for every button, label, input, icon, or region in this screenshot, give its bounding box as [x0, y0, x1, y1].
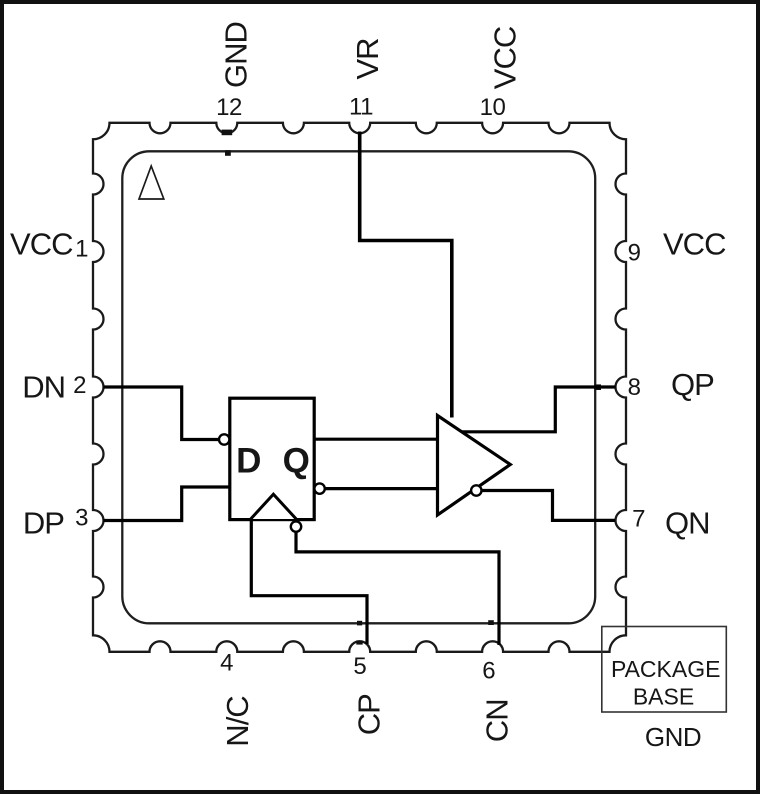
- wire Q: flip-flop Q output to buffer: [314, 438, 438, 441]
- pin 1 index triangle marker: [139, 166, 164, 199]
- wire DN: pin 2 to D input bubble: [104, 387, 220, 440]
- wire VR: pin 11 to buffer top: [360, 132, 452, 418]
- svg-text:QP: QP: [671, 367, 714, 402]
- svg-text:N/C: N/C: [220, 696, 255, 747]
- svg-text:QN: QN: [665, 506, 710, 541]
- bubble at buffer inverted output: [471, 485, 481, 495]
- wire QN: buffer inverted output to pin 7: [481, 491, 616, 521]
- svg-text:VCC: VCC: [663, 227, 726, 262]
- svg-text:12: 12: [216, 94, 242, 121]
- wire Qbar: flip-flop inverted output to buffer: [325, 487, 439, 490]
- clock edge wedge: [251, 494, 297, 519]
- svg-text:VCC: VCC: [10, 227, 73, 262]
- svg-text:3: 3: [75, 505, 88, 532]
- svg-text:10: 10: [480, 94, 506, 121]
- svg-text:6: 6: [482, 658, 495, 685]
- svg-text:4: 4: [220, 650, 233, 677]
- buffer U2 triangle: [438, 416, 511, 516]
- svg-text:GND: GND: [219, 22, 254, 88]
- svg-text:GND: GND: [645, 722, 701, 752]
- wire QP: buffer output to pin 8: [461, 387, 616, 432]
- svg-text:1: 1: [75, 236, 88, 263]
- junction dot on ring at pin 5: [357, 621, 362, 626]
- svg-text:PACKAGE: PACKAGE: [611, 656, 721, 682]
- bubble at Qbar output: [314, 483, 324, 493]
- svg-text:5: 5: [353, 653, 366, 680]
- junction dot where QP wire crosses ring: [595, 384, 601, 390]
- junction dot pin12 to ring: [225, 150, 231, 156]
- svg-text:DN: DN: [22, 370, 65, 405]
- wire DP: pin 3 to D flip-flop lower input: [104, 487, 230, 521]
- svg-text:9: 9: [628, 240, 641, 267]
- svg-text:BASE: BASE: [633, 684, 694, 710]
- svg-text:DP: DP: [23, 506, 64, 541]
- pin 12 pad at notch: [222, 130, 233, 136]
- pad at pin 5 notch: [356, 640, 362, 644]
- bubble at inverted clock (CN): [291, 521, 301, 531]
- svg-text:2: 2: [73, 372, 86, 399]
- svg-text:7: 7: [632, 506, 645, 533]
- seal ring (inner rounded square, GND ring): [122, 151, 595, 623]
- package outline with castellated notches: [93, 123, 626, 652]
- flip-flop U1 box: [230, 398, 314, 519]
- svg-text:VR: VR: [350, 38, 385, 79]
- svg-text:Q: Q: [283, 442, 310, 481]
- bubble at D input: [219, 434, 229, 444]
- wire CP: pin 5 to clock input: [251, 519, 367, 644]
- svg-text:VCC: VCC: [488, 26, 523, 89]
- svg-text:11: 11: [349, 94, 373, 121]
- svg-text:CP: CP: [352, 694, 387, 735]
- svg-text:8: 8: [628, 374, 641, 401]
- svg-text:D: D: [236, 442, 261, 481]
- svg-text:CN: CN: [480, 699, 515, 742]
- junction dot on ring at pin 6: [488, 620, 494, 625]
- wire CN: inverted clock bubble to pin 6: [296, 532, 499, 646]
- package base box: [602, 627, 727, 713]
